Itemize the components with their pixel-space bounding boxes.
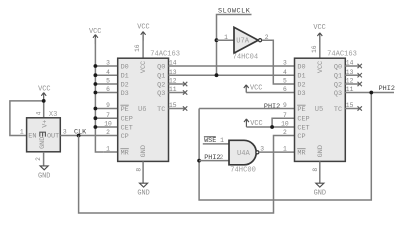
no-connect U6 Q3 — [183, 90, 187, 94]
wire rail to D2 — [95, 83, 117, 85]
junction rail D3 — [94, 91, 98, 95]
svg-text:2: 2 — [106, 129, 110, 136]
svg-text:D2: D2 — [121, 81, 129, 89]
svg-text:U5: U5 — [315, 106, 324, 114]
svg-text:D2: D2 — [297, 81, 305, 89]
junction SLOWCLK at Q1 — [215, 73, 219, 77]
svg-text:3: 3 — [63, 128, 67, 135]
wire PHI2 to NAND pin 2 — [199, 160, 229, 162]
power symbol VCC (U6 pin 16) — [137, 23, 149, 41]
svg-text:U4A: U4A — [237, 150, 251, 158]
wire rail to MR — [104, 151, 118, 153]
svg-text:74HC04: 74HC04 — [233, 54, 259, 62]
svg-text:GND: GND — [39, 137, 47, 149]
wire U5 CEP jog — [272, 118, 294, 127]
junction rail D2 — [94, 82, 98, 86]
wire U6 pin 16 — [142, 35, 144, 58]
svg-text:7: 7 — [283, 112, 287, 119]
svg-text:VCC: VCC — [38, 85, 50, 93]
svg-text:D3: D3 — [121, 90, 129, 98]
svg-text:Q3: Q3 — [334, 90, 342, 98]
ground (U6) — [137, 183, 149, 197]
svg-text:VCC: VCC — [317, 61, 325, 73]
ground (U5) — [314, 183, 326, 197]
svg-text:1: 1 — [20, 128, 24, 135]
svg-text:X3: X3 — [49, 111, 58, 119]
svg-text:2: 2 — [35, 157, 42, 161]
svg-text:TC: TC — [157, 106, 165, 114]
svg-text:7: 7 — [106, 112, 110, 119]
svg-text:9: 9 — [106, 102, 110, 109]
wire U6 pin 8 to GND — [142, 161, 144, 183]
junction rail D0 — [94, 64, 98, 68]
svg-text:3: 3 — [106, 60, 110, 67]
svg-text:CP: CP — [121, 133, 129, 141]
wire NAND output to U5 MR — [259, 151, 295, 153]
stub U6 Q2 — [169, 83, 185, 85]
junction PHI2 at Q3 — [369, 91, 373, 95]
power symbol VCC (U5 D3) — [244, 84, 263, 92]
stub U6 TC — [169, 108, 185, 110]
svg-text:U7A: U7A — [236, 38, 250, 46]
svg-text:OUT: OUT — [47, 133, 59, 141]
svg-text:PE: PE — [121, 106, 129, 114]
svg-text:74HC00: 74HC00 — [230, 167, 256, 175]
wire WSE to NAND pin 1 — [203, 143, 229, 145]
svg-text:D1: D1 — [121, 73, 129, 81]
stub U6 Q3 — [169, 92, 185, 94]
stub U5 TC — [345, 108, 359, 110]
power symbol VCC (left rail) — [89, 28, 101, 44]
svg-text:CEP: CEP — [121, 116, 133, 124]
stub U5 Q0 — [345, 65, 359, 67]
wire X3 pin 2 to GND — [43, 152, 45, 166]
counter U6 74AC163 — [118, 58, 169, 161]
svg-text:GND: GND — [137, 190, 149, 198]
svg-text:PE: PE — [297, 106, 305, 114]
stub U5 Q1 — [345, 74, 359, 76]
stub U5 Q2 — [345, 83, 359, 85]
svg-text:3: 3 — [283, 60, 287, 67]
no-connect U5 Q0 — [358, 64, 362, 68]
wire inverter input — [217, 39, 235, 41]
svg-text:1: 1 — [220, 137, 224, 144]
wire CLK drop down — [79, 136, 295, 214]
no-connect U6 Q2 — [183, 82, 187, 86]
svg-text:10: 10 — [281, 121, 289, 128]
svg-text:5: 5 — [283, 78, 287, 85]
junction CLK — [77, 134, 81, 138]
junction rail CET — [94, 125, 98, 129]
wire rail to CET — [95, 126, 117, 128]
wire EN loop vertical — [10, 101, 44, 136]
svg-text:TC: TC — [334, 106, 342, 114]
svg-text:VCC: VCC — [137, 23, 149, 31]
svg-text:VCC: VCC — [250, 84, 262, 92]
power symbol VCC (U5 CEP/CET) — [244, 119, 263, 128]
svg-text:PHI2: PHI2 — [264, 103, 280, 111]
wire rail to D3 — [95, 92, 117, 94]
svg-text:4: 4 — [106, 69, 110, 76]
power symbol VCC (X3) — [38, 85, 50, 101]
junction SLOWCLK at inverter input — [215, 38, 219, 42]
svg-text:16: 16 — [311, 45, 318, 53]
svg-text:EN: EN — [28, 133, 36, 141]
svg-text:4: 4 — [283, 69, 287, 76]
svg-text:Q2: Q2 — [334, 81, 342, 89]
svg-text:74AC163: 74AC163 — [150, 50, 180, 58]
svg-text:GND: GND — [317, 145, 325, 157]
svg-text:CP: CP — [297, 133, 305, 141]
svg-text:Q0: Q0 — [157, 63, 165, 71]
svg-text:VCC: VCC — [313, 24, 325, 32]
svg-text:Q1: Q1 — [157, 73, 165, 81]
wire inverter output to U5 D2 — [262, 40, 295, 84]
wire U5 Q3 PHI2 — [345, 92, 394, 94]
svg-text:D0: D0 — [297, 63, 305, 71]
svg-text:MR: MR — [121, 149, 129, 157]
svg-text:GND: GND — [314, 190, 326, 198]
svg-text:2: 2 — [283, 129, 287, 136]
wire U5 pin 16 — [319, 36, 321, 58]
svg-text:GND: GND — [38, 173, 50, 181]
svg-text:6: 6 — [283, 86, 287, 93]
svg-text:6: 6 — [106, 86, 110, 93]
ground (X3) — [38, 166, 50, 181]
svg-text:GND: GND — [140, 145, 148, 157]
svg-text:74AC163: 74AC163 — [327, 50, 357, 58]
svg-text:VCC: VCC — [140, 61, 148, 73]
svg-text:2: 2 — [220, 154, 224, 161]
wire PHI2 rail — [199, 93, 371, 201]
svg-text:16: 16 — [134, 44, 141, 52]
svg-text:10: 10 — [104, 121, 112, 128]
wire U6 Q1 to U5 D1 — [169, 74, 295, 76]
no-connect U6 TC — [183, 106, 187, 110]
svg-text:PHI2: PHI2 — [379, 85, 395, 93]
wire VCC to U5 CET — [246, 126, 294, 128]
nand gate U4A — [229, 140, 259, 165]
svg-text:D3: D3 — [297, 90, 305, 98]
svg-text:Q2: Q2 — [157, 81, 165, 89]
wire CLK from X3 OUT to U6 CP — [60, 135, 117, 137]
wire rail to CEP — [95, 117, 117, 119]
junction CEP/CET — [270, 125, 274, 129]
svg-text:8: 8 — [135, 168, 142, 172]
junction at VCC X3 — [42, 99, 46, 103]
svg-text:1: 1 — [224, 34, 228, 41]
wire SLOWCLK — [217, 15, 252, 76]
wire VCC to U5 D3 — [246, 92, 294, 94]
svg-text:Q0: Q0 — [334, 63, 342, 71]
svg-text:CEP: CEP — [297, 116, 309, 124]
svg-text:Q1: Q1 — [334, 73, 342, 81]
svg-text:1: 1 — [283, 146, 287, 153]
svg-text:8: 8 — [312, 168, 319, 172]
counter U5 74AC163 — [295, 58, 346, 161]
wire rail to PE — [95, 108, 117, 110]
wire U6 Q0 to U5 D0 — [169, 65, 295, 67]
junction rail CEP — [94, 116, 98, 120]
junction PHI2 at NAND input — [197, 159, 201, 163]
no-connect U5 TC — [358, 106, 362, 110]
junction rail PE — [94, 107, 98, 111]
svg-text:1: 1 — [106, 146, 110, 153]
svg-text:MR: MR — [297, 149, 305, 157]
svg-text:4: 4 — [36, 111, 43, 115]
net label WSE — [204, 137, 216, 145]
junction rail D1 — [94, 73, 98, 77]
svg-text:9: 9 — [283, 102, 287, 109]
no-connect U5 Q2 — [358, 82, 362, 86]
wire VCC rail vertical — [95, 38, 103, 152]
inverter U7A — [234, 27, 262, 53]
oscillator X3 — [27, 118, 61, 152]
power symbol VCC (U5 pin 16) — [313, 24, 325, 42]
svg-text:D0: D0 — [121, 63, 129, 71]
svg-text:D1: D1 — [297, 73, 305, 81]
wire U5 pin 8 to GND — [319, 161, 321, 183]
wire rail to D1 — [95, 74, 117, 76]
svg-text:Q3: Q3 — [157, 90, 165, 98]
svg-text:CET: CET — [121, 124, 133, 132]
wire VCC to X3 pin 4 — [43, 101, 45, 118]
svg-text:U6: U6 — [138, 106, 147, 114]
wire rail to D0 — [95, 65, 117, 67]
svg-text:5: 5 — [106, 78, 110, 85]
svg-text:V+: V+ — [41, 120, 49, 128]
svg-text:CET: CET — [297, 124, 309, 132]
no-connect U5 Q1 — [358, 73, 362, 77]
wire PHI2 to U5 PE — [199, 108, 294, 110]
